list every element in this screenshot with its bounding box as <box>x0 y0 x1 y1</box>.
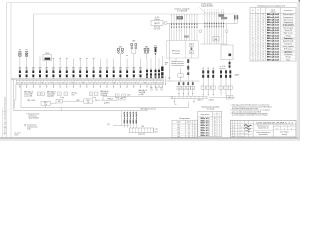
wire from box B down <box>229 60 231 70</box>
svg-text:гр3: гр3 <box>130 82 132 84</box>
svg-text:Инв.N подл. Подп. и дата Вза: Инв.N подл. Подп. и дата Взам.инв.N Согл… <box>4 97 6 135</box>
svg-text:5х6: 5х6 <box>150 89 152 91</box>
feeder 11 outgoing arrow <box>86 84 88 88</box>
small box pair <box>37 92 40 95</box>
drop element x188.2 <box>187 81 189 96</box>
svg-text:гр.1: гр.1 <box>177 125 180 127</box>
svg-text:5х6-0,4кВ: 5х6-0,4кВ <box>139 92 145 94</box>
svg-text:ЩЗ: ЩЗ <box>107 124 109 126</box>
strip divider 30 <box>118 80 120 84</box>
feeder 6 wire <box>52 58 54 70</box>
svg-text:гр1: гр1 <box>110 82 112 84</box>
strip divider 14 <box>63 80 65 84</box>
svg-text:ВВГнг 3х1,5: ВВГнг 3х1,5 <box>201 120 210 122</box>
svg-text:2,5: 2,5 <box>188 129 190 131</box>
svg-text:Таблица расчетных нагрузок сет: Таблица расчетных нагрузок сети <box>257 5 285 7</box>
top-right corner mark <box>299 0 300 2</box>
svg-text:16: 16 <box>262 38 264 40</box>
table row line 3 <box>250 20 296 22</box>
svg-text:установок подлежат заземлению: установок подлежат заземлению согласно П… <box>232 115 269 117</box>
svg-text:Расход кабеля: Расход кабеля <box>179 118 190 120</box>
svg-text:энергии установить: энергии установить <box>171 63 184 65</box>
svg-text:16: 16 <box>262 25 264 27</box>
svg-text:медь 5х50: медь 5х50 <box>138 134 145 136</box>
svg-text:Розетки комнат: Розетки комнат <box>283 14 294 16</box>
wire meter down <box>46 61 48 71</box>
svg-text:гр.4: гр.4 <box>177 131 180 133</box>
svg-text:45: 45 <box>214 118 216 120</box>
feeder 3 outgoing arrow <box>32 84 34 88</box>
table B row line 5 <box>198 128 222 130</box>
riser wire 1.5 <box>181 15 183 41</box>
strip divider 41 <box>156 80 158 84</box>
svg-text:ВВГнг(А) 3х2,5: ВВГнг(А) 3х2,5 <box>267 26 279 29</box>
strip divider 31 <box>122 80 124 84</box>
svg-text:123-05/2019-ЭОМ.С л.1: 123-05/2019-ЭОМ.С л.1 <box>256 122 294 124</box>
svg-text:по стоякам: по стоякам <box>207 109 214 111</box>
svg-text:Стир. машина: Стир. машина <box>283 25 293 27</box>
svg-text:ЯТП: ЯТП <box>58 101 61 103</box>
feeder 5 outgoing arrow <box>46 84 48 88</box>
svg-text:щ4: щ4 <box>137 82 139 84</box>
table row line 8 <box>250 33 296 35</box>
strip divider 24 <box>98 80 100 84</box>
feeder 14 wire <box>106 58 108 70</box>
table column line 4 <box>280 8 282 62</box>
feeder 7 outgoing arrow <box>59 84 61 88</box>
table column line 1 <box>255 8 257 62</box>
terminal tick 2 <box>178 96 180 98</box>
feeder 1 outgoing arrow <box>19 84 21 88</box>
svg-text:2,1: 2,1 <box>257 35 259 37</box>
svg-text:щ3: щ3 <box>96 82 98 84</box>
right shadow edge <box>298 0 300 140</box>
svg-text:гр1: гр1 <box>48 82 50 84</box>
dark mark in box B <box>229 54 232 57</box>
svg-text:ВВГнг 3х1,5: ВВГнг 3х1,5 <box>201 132 210 134</box>
svg-text:16: 16 <box>252 54 254 56</box>
leader diagonal line <box>200 8 205 13</box>
svg-text:ВВГнг(А) 3х2,5: ВВГнг(А) 3х2,5 <box>267 16 279 19</box>
svg-text:гр2: гр2 <box>27 82 29 84</box>
feeder 8 wire <box>66 58 68 70</box>
svg-text:гр. 15-18: гр. 15-18 <box>220 66 226 68</box>
strip divider 17 <box>74 80 76 84</box>
feeder 21 outgoing arrow <box>150 84 152 88</box>
svg-text:Освещ. подвала: Освещ. подвала <box>282 46 294 48</box>
table A row line 4 <box>172 132 197 134</box>
svg-text:2,1: 2,1 <box>257 33 259 35</box>
svg-text:QF2: QF2 <box>25 68 28 70</box>
svg-text:гр2: гр2 <box>151 82 153 84</box>
svg-text:См. лист 2: См. лист 2 <box>14 133 21 135</box>
strip divider 39 <box>149 80 151 84</box>
svg-text:марка кабеля: марка кабеля <box>201 114 210 116</box>
svg-text:2,1: 2,1 <box>257 27 259 29</box>
table row line 14 <box>250 49 296 51</box>
meter circle <box>164 22 167 25</box>
svg-text:Изм: Изм <box>232 135 234 137</box>
svg-text:ВВГнг 3х1,5: ВВГнг 3х1,5 <box>201 123 210 125</box>
box A (vru cabinet) <box>167 41 199 58</box>
riser wire 1.6 <box>183 15 185 41</box>
riser wire 1.10 <box>193 15 195 41</box>
svg-text:ВВГнг(А) 3х2,5: ВВГнг(А) 3х2,5 <box>267 21 279 24</box>
bullet before block B <box>25 124 26 125</box>
long wire y107.5 <box>21 107 189 109</box>
table A row line 3 <box>172 130 197 132</box>
svg-text:Схема электрическая: Схема электрическая <box>256 132 270 134</box>
svg-text:3х3м: 3х3м <box>27 129 30 131</box>
table row line 6 <box>250 28 296 30</box>
feeder 20 outgoing arrow <box>146 84 148 88</box>
svg-text:45: 45 <box>214 123 216 125</box>
svg-text:трубе ПНД d63: трубе ПНД d63 <box>28 118 39 120</box>
svg-text:16: 16 <box>262 49 264 51</box>
svg-text:ВВГнг(А) 3х2,5: ВВГнг(А) 3х2,5 <box>267 40 279 43</box>
strip divider 1 <box>19 80 21 84</box>
box B lower breaker blob 1 <box>229 62 231 65</box>
svg-text:18: 18 <box>252 59 254 61</box>
svg-text:25: 25 <box>194 127 196 129</box>
svg-text:ВВГнг 3х1,5: ВВГнг 3х1,5 <box>201 125 210 127</box>
svg-text:щ3: щ3 <box>65 82 67 84</box>
svg-text:гр2: гр2 <box>58 82 60 84</box>
left drop wire x14.6 <box>14 100 16 108</box>
strip divider 10 <box>50 80 52 84</box>
svg-text:QF5: QF5 <box>45 68 48 70</box>
small box k2 <box>122 94 126 98</box>
strip divider 29 <box>115 80 117 84</box>
table row line 1 <box>250 15 296 17</box>
svg-text:щ2: щ2 <box>117 82 119 84</box>
strip divider 28 <box>111 80 113 84</box>
svg-text:15: 15 <box>252 51 254 53</box>
right feeder x188 <box>187 59 189 81</box>
bottom strip divider 1 <box>131 128 133 133</box>
box B lower breaker blob 2 <box>229 65 231 67</box>
svg-text:ВВГнг(А) 3х2,5: ВВГнг(А) 3х2,5 <box>267 56 279 59</box>
svg-text:FV: FV <box>26 50 28 52</box>
svg-text:QF7: QF7 <box>126 68 129 70</box>
strip divider 32 <box>125 80 127 84</box>
svg-text:45: 45 <box>214 132 216 134</box>
svg-text:КМ2: КМ2 <box>132 41 135 43</box>
svg-text:РЕ шина: РЕ шина <box>72 92 78 94</box>
drop element x183.5 <box>183 81 185 96</box>
svg-text:2,1: 2,1 <box>257 43 259 45</box>
box ЩК <box>213 37 219 42</box>
svg-text:ЩЭ-1: ЩЭ-1 <box>44 102 48 104</box>
feeder 11 wire <box>86 58 88 70</box>
feeder 4 outgoing arrow <box>39 84 41 88</box>
svg-text:2,5: 2,5 <box>188 131 190 133</box>
table row line 7 <box>250 31 296 33</box>
svg-text:Освещ. ЛК: Освещ. ЛК <box>284 30 292 32</box>
svg-text:QF2: QF2 <box>92 68 95 70</box>
riser wire 1.8 <box>188 15 190 41</box>
svg-text:Приборы учета эл.: Приборы учета эл. <box>171 61 184 63</box>
bottom strip divider 5 <box>143 128 145 133</box>
table row line 12 <box>250 44 296 46</box>
strip divider 9 <box>46 80 48 84</box>
svg-text:QF5: QF5 <box>112 68 115 70</box>
strip divider 11 <box>53 80 55 84</box>
svg-text:ШУЭ: ШУЭ <box>86 100 89 102</box>
hatch group 1 lower blob <box>184 35 189 37</box>
svg-text:ВВГнг(А) 3х2,5: ВВГнг(А) 3х2,5 <box>267 53 279 56</box>
strip divider 37 <box>142 80 144 84</box>
svg-text:ВВГнг(А) 3х2,5: ВВГнг(А) 3х2,5 <box>267 34 279 37</box>
svg-text:Изм: Изм <box>232 133 234 135</box>
svg-text:ВЛ-0,4кВ: ВЛ-0,4кВ <box>154 27 160 29</box>
sheet outer left edge line <box>1 108 3 137</box>
strip divider 2 <box>22 80 24 84</box>
svg-text:25: 25 <box>194 131 196 133</box>
terminal tick 4 <box>186 96 188 98</box>
feeder 9 wire <box>73 58 75 70</box>
svg-text:Разраб: Разраб <box>240 127 244 129</box>
strip divider 34 <box>132 80 134 84</box>
feeder 19 wire <box>140 58 142 70</box>
svg-text:2,1: 2,1 <box>257 17 259 19</box>
svg-text:16: 16 <box>262 22 264 24</box>
riser wire 1.1 <box>171 15 173 41</box>
svg-text:квартир N10-N18: квартир N10-N18 <box>201 6 213 8</box>
svg-text:ВВГнг 3х1,5: ВВГнг 3х1,5 <box>201 130 210 132</box>
strip divider 22 <box>91 80 93 84</box>
svg-text:потребитель: потребитель <box>284 10 293 12</box>
svg-text:14: 14 <box>252 49 254 51</box>
svg-text:гр2: гр2 <box>89 82 91 84</box>
svg-text:5х10-0,4кВ: 5х10-0,4кВ <box>47 94 55 96</box>
svg-text:сталь: сталь <box>155 129 159 131</box>
rotated cable label 5 <box>135 111 137 128</box>
svg-text:16: 16 <box>262 57 264 59</box>
svg-text:6 мод.: 6 мод. <box>92 97 97 99</box>
svg-text:5х6: 5х6 <box>155 89 157 91</box>
table B header line <box>198 116 222 118</box>
svg-text:13: 13 <box>252 46 254 48</box>
circuit label strip under bus <box>16 80 164 84</box>
cabinet top outline <box>34 13 238 15</box>
page background <box>0 0 300 141</box>
feeder 9 outgoing arrow <box>73 84 75 88</box>
svg-text:2,1: 2,1 <box>257 41 259 43</box>
table row line 13 <box>250 47 296 49</box>
terminal tick 8 <box>202 96 204 98</box>
feeder 22 outgoing arrow <box>155 84 157 88</box>
strip divider 25 <box>101 80 103 84</box>
svg-text:2,1: 2,1 <box>257 46 259 48</box>
svg-text:QF9: QF9 <box>139 68 142 70</box>
wire row2 <box>63 100 84 102</box>
signature scribbles <box>244 125 251 127</box>
bottom strip divider 4 <box>140 128 142 133</box>
feeder 10 outgoing arrow <box>79 84 81 88</box>
strip divider 21 <box>87 80 89 84</box>
svg-text:гр.3: гр.3 <box>177 129 180 131</box>
table row line 16 <box>250 55 296 57</box>
table B row line 1 <box>198 118 222 120</box>
left drop wire x21 <box>20 84 22 107</box>
svg-text:16: 16 <box>262 27 264 29</box>
sheet border frame top <box>7 2 298 4</box>
svg-text:ВВГнг(А) 3х2,5: ВВГнг(А) 3х2,5 <box>267 32 279 35</box>
svg-text:гр3: гр3 <box>99 82 101 84</box>
svg-text:2,1: 2,1 <box>257 38 259 40</box>
drop wire x121.7 <box>121 111 123 126</box>
feeder 7 wire <box>59 58 61 70</box>
feeder 12 outgoing arrow <box>93 84 95 88</box>
strip divider 3 <box>25 80 27 84</box>
svg-text:17: 17 <box>252 57 254 59</box>
riser wire 1.4 <box>178 15 180 41</box>
table row line 11 <box>250 41 296 43</box>
bottom terminal strip <box>129 128 153 133</box>
svg-text:QF6: QF6 <box>52 68 55 70</box>
svg-text:Плита электр.: Плита электр. <box>283 19 293 21</box>
strip divider 35 <box>135 80 137 84</box>
svg-text:QF8: QF8 <box>132 68 135 70</box>
strip divider 18 <box>77 80 79 84</box>
svg-text:6 мод.: 6 мод. <box>60 97 65 99</box>
circle right of group 2 <box>226 24 228 30</box>
sheet border frame left <box>6 3 8 138</box>
strip divider 15 <box>67 80 69 84</box>
svg-text:ВВГнг(А) 3х2,5: ВВГнг(А) 3х2,5 <box>267 37 279 40</box>
svg-text:к ЩЭ 6-9: к ЩЭ 6-9 <box>209 100 215 102</box>
bottom strip divider 3 <box>137 128 139 133</box>
feeder 17 outgoing arrow <box>126 84 128 88</box>
table B row line 4 <box>198 126 222 128</box>
svg-text:ВВГнг(А) 3х2,5: ВВГнг(А) 3х2,5 <box>267 50 279 53</box>
feeder 16 wire <box>119 58 121 70</box>
circle left of group 2 merge <box>199 30 202 33</box>
svg-text:11: 11 <box>252 41 254 43</box>
strip divider 8 <box>43 80 45 84</box>
mid chain boxes <box>58 92 62 95</box>
table header row <box>250 12 296 14</box>
feeder 18 outgoing arrow <box>133 84 135 88</box>
svg-text:45: 45 <box>214 130 216 132</box>
sheet border frame right <box>296 3 298 138</box>
svg-text:Wh: Wh <box>187 88 189 90</box>
svg-text:гр1: гр1 <box>17 82 19 84</box>
table B row line 2 <box>198 121 222 123</box>
svg-text:щ3: щ3 <box>34 82 36 84</box>
title block left grid horizontals <box>231 122 254 124</box>
table A row line 5 <box>172 134 197 136</box>
svg-text:Н.контр: Н.контр <box>240 133 244 135</box>
small box k1 <box>115 94 119 98</box>
svg-text:Стояки питания: Стояки питания <box>201 4 212 6</box>
box row2 wide <box>103 97 117 101</box>
svg-text:45: 45 <box>214 125 216 127</box>
svg-text:ИТП насосы: ИТП насосы <box>284 49 293 51</box>
svg-text:25: 25 <box>194 125 196 127</box>
title block frame <box>231 121 297 138</box>
table row line 10 <box>250 39 296 41</box>
svg-text:25: 25 <box>194 129 196 131</box>
svg-text:Розетки с/у: Розетки с/у <box>284 38 292 40</box>
svg-text:гр.5: гр.5 <box>177 134 180 136</box>
terminal strip right mid (thin) <box>171 96 207 98</box>
svg-text:щ2: щ2 <box>147 82 149 84</box>
svg-text:ЩУ-ТП: ЩУ-ТП <box>154 23 160 25</box>
left jog wire <box>15 99 16 101</box>
svg-text:Заземлитель: Заземлитель <box>27 125 36 127</box>
svg-text:Электро": Электро" <box>282 134 289 136</box>
doc code cell line <box>253 123 296 125</box>
long wire y110.5 <box>14 110 148 112</box>
terminal tick 1 <box>174 96 176 98</box>
wire stub b <box>101 99 103 101</box>
strip divider 27 <box>108 80 110 84</box>
feeder 10 wire <box>79 58 81 70</box>
svg-text:Wh: Wh <box>178 88 180 90</box>
svg-text:QF6: QF6 <box>119 68 122 70</box>
svg-text:ВВГнг 3х1,5: ВВГнг 3х1,5 <box>201 118 210 120</box>
stub below box A <box>175 58 177 61</box>
table row line 15 <box>250 52 296 54</box>
svg-text:P: P <box>257 10 258 12</box>
riser wire 1.9 <box>191 15 193 41</box>
terminal tick 5 <box>190 96 192 98</box>
svg-text:Изм: Изм <box>232 130 234 132</box>
svg-text:2,5: 2,5 <box>188 125 190 127</box>
svg-text:марка: марка <box>177 122 181 124</box>
table B row line 7 <box>198 133 222 135</box>
svg-text:ЩК: ЩК <box>215 39 217 41</box>
strip divider 23 <box>94 80 96 84</box>
left drop wire x13.5 <box>13 79 15 111</box>
strip divider 7 <box>39 80 41 84</box>
main bus <box>11 78 164 80</box>
svg-text:УЭРМ-16: УЭРМ-16 <box>107 98 113 100</box>
svg-text:TN-C-S: TN-C-S <box>95 100 100 102</box>
svg-text:2,5: 2,5 <box>188 134 190 136</box>
hatch group 2 text blobs <box>218 14 224 17</box>
terminal tick 6 <box>194 96 196 98</box>
svg-text:FV: FV <box>19 50 21 52</box>
svg-text:ввод: ввод <box>165 62 168 64</box>
merge wire y125.7 <box>113 125 129 127</box>
svg-text:ВВГнг(А) 3х2,5: ВВГнг(А) 3х2,5 <box>267 48 279 51</box>
svg-text:2,1: 2,1 <box>257 25 259 27</box>
svg-text:QF4: QF4 <box>39 68 42 70</box>
svg-text:ВВГнг(А) 3х2,5: ВВГнг(А) 3х2,5 <box>267 24 279 27</box>
svg-text:марка: марка <box>271 9 275 11</box>
table row line 9 <box>250 36 296 38</box>
svg-text:до ВРУ1: до ВРУ1 <box>104 102 110 104</box>
svg-text:N8 сх.: N8 сх. <box>127 94 132 96</box>
row2 chain <box>56 99 63 103</box>
table row line 17 <box>250 57 296 59</box>
svg-text:кабеля: кабеля <box>271 11 276 13</box>
inner margin line <box>10 3 12 138</box>
svg-text:16: 16 <box>262 17 264 19</box>
strip divider 42 <box>159 80 161 84</box>
svg-text:16: 16 <box>262 46 264 48</box>
svg-text:2,1: 2,1 <box>257 49 259 51</box>
strip divider 36 <box>139 80 141 84</box>
feeder tight 5 tall dark breaker <box>161 56 163 67</box>
svg-text:От ПС: От ПС <box>155 17 159 19</box>
svg-text:4х16-0,4кВ: 4х16-0,4кВ <box>101 93 108 95</box>
title block verticals <box>232 121 234 138</box>
svg-text:гр2: гр2 <box>120 82 122 84</box>
